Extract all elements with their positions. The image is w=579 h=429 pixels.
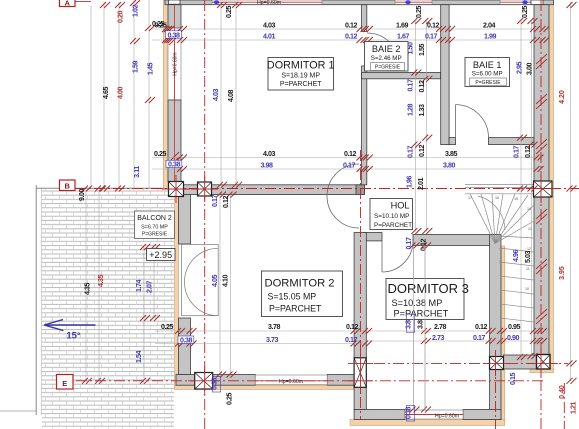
svg-text:16: 16 — [495, 196, 499, 200]
svg-text:E: E — [62, 379, 67, 388]
svg-text:4.10: 4.10 — [222, 274, 230, 287]
column B2 — [191, 176, 218, 202]
box around rotated 0.38 at D3 window — [406, 406, 414, 422]
D3 bottom row texts — [434, 323, 521, 331]
boxed 0.38 top — [166, 31, 182, 40]
svg-text:P=GRESIE: P=GRESIE — [142, 232, 168, 238]
svg-text:1.33: 1.33 — [418, 104, 426, 117]
stair tread numbers — [468, 196, 532, 291]
top wall window DORMITOR 1 — [212, 0, 322, 4]
svg-text:S=2.46 MP: S=2.46 MP — [371, 55, 402, 62]
red axis B horizontal — [75, 188, 579, 190]
svg-text:3.11: 3.11 — [133, 166, 141, 178]
column right wall bottom — [528, 348, 558, 378]
svg-text:P=GRESIE: P=GRESIE — [375, 65, 401, 71]
svg-text:0.38: 0.38 — [211, 377, 219, 390]
wall DORMITOR2 / DORMITOR3 — [354, 233, 366, 358]
BAIE2/HOL chains — [414, 21, 416, 232]
svg-text:1.54: 1.54 — [135, 350, 143, 363]
box around rotated 3.80 — [406, 314, 414, 332]
svg-text:3.98: 3.98 — [260, 162, 273, 170]
svg-text:3.78: 3.78 — [268, 323, 281, 331]
top dim rows — [152, 28, 545, 30]
mid row y151-165 texts — [154, 150, 458, 158]
svg-text:0.17: 0.17 — [345, 336, 358, 344]
red axis vertical x=360.5 — [360, 150, 362, 420]
svg-text:Hp=0.60m: Hp=0.60m — [435, 413, 459, 419]
svg-text:1.59: 1.59 — [132, 60, 140, 73]
svg-text:3.85: 3.85 — [445, 150, 458, 158]
svg-text:0.12: 0.12 — [344, 150, 357, 158]
door DORMITOR3 — [382, 241, 413, 272]
BAIE1 bottom wall right segment — [489, 138, 535, 145]
svg-text:4.35: 4.35 — [84, 282, 92, 295]
tan strip right wall — [549, 0, 554, 370]
svg-text:2.04: 2.04 — [483, 22, 496, 30]
DORMITOR3 top wall — [413, 235, 498, 246]
grid box A — [60, 0, 92, 7]
door D2/HOL half-swing arc — [327, 164, 359, 228]
room label DORMITOR 2 — [262, 271, 343, 317]
svg-text:12: 12 — [527, 247, 531, 251]
column D3 right — [483, 350, 510, 376]
svg-text:S=6.70 MP: S=6.70 MP — [141, 225, 168, 231]
svg-text:3.00: 3.00 — [526, 62, 534, 75]
DORMITOR2 bottom window — [255, 375, 327, 385]
svg-text:Hp=0.60m: Hp=0.60m — [257, 0, 281, 6]
D2 inner chains — [219, 195, 221, 375]
svg-text:5.03: 5.03 — [524, 250, 532, 263]
svg-text:0.12: 0.12 — [524, 145, 532, 158]
svg-text:0.38: 0.38 — [168, 161, 181, 169]
left vertical chains top — [90, 6, 92, 189]
svg-text:DORMITOR 3: DORMITOR 3 — [388, 281, 469, 296]
svg-text:4.96: 4.96 — [512, 249, 520, 262]
DORMITOR3 right wall — [490, 235, 501, 357]
top wall window BAIE 2 — [395, 0, 432, 4]
door BAIE2 — [367, 33, 400, 66]
BAIE2/HOL chain labels — [406, 42, 427, 190]
D2 bottom dim rows — [155, 330, 366, 332]
svg-text:0.40: 0.40 — [559, 385, 566, 399]
svg-text:2.01: 2.01 — [417, 177, 425, 190]
svg-text:0.38: 0.38 — [180, 336, 193, 344]
svg-text:2.95: 2.95 — [516, 61, 524, 74]
svg-text:0.17: 0.17 — [343, 162, 356, 170]
red insulation slashes on left wall — [169, 30, 179, 167]
top exterior wall — [165, 0, 554, 5]
svg-text:1.69: 1.69 — [396, 22, 409, 30]
tan strip D3 right wall — [501, 246, 505, 425]
grid box B — [60, 180, 76, 191]
svg-text:0.25: 0.25 — [154, 150, 167, 158]
svg-text:0.25: 0.25 — [152, 20, 165, 28]
svg-text:0.25: 0.25 — [225, 5, 233, 18]
window vent dot 1 — [214, 0, 220, 4]
svg-text:S=15.05 MP: S=15.05 MP — [268, 292, 317, 302]
svg-text:0.17: 0.17 — [211, 194, 219, 207]
door BAIE1 — [456, 105, 489, 138]
room label DORMITOR 1 — [267, 58, 335, 91]
svg-text:0.12: 0.12 — [420, 238, 428, 251]
tan strip D2 west wall — [175, 195, 179, 390]
svg-text:S=10.10 MP: S=10.10 MP — [374, 213, 409, 220]
svg-text:4.05: 4.05 — [211, 274, 219, 287]
tan strip below D2 bottom wall — [175, 385, 355, 389]
svg-text:BAIE 1: BAIE 1 — [473, 60, 502, 70]
svg-text:15°: 15° — [66, 331, 81, 342]
svg-text:17: 17 — [468, 196, 472, 200]
svg-text:9.00: 9.00 — [78, 188, 86, 201]
svg-text:3.73: 3.73 — [266, 336, 279, 344]
stairs — [465, 185, 538, 322]
left vertical chain labels — [78, 4, 155, 363]
svg-text:1.74: 1.74 — [135, 279, 143, 292]
svg-text:14: 14 — [527, 207, 531, 211]
svg-text:0.12: 0.12 — [418, 80, 426, 93]
red axis vertical x=541 — [540, 0, 542, 429]
svg-text:0.95: 0.95 — [508, 323, 521, 331]
svg-text:4.35: 4.35 — [97, 274, 105, 287]
svg-text:P=PARCHET: P=PARCHET — [394, 309, 449, 319]
svg-text:3.95: 3.95 — [559, 266, 566, 280]
wall below BAIE2 — [362, 73, 441, 79]
room label HOL — [370, 199, 413, 230]
red axis horizontal y=363.4 — [374, 362, 568, 364]
svg-text:S=6.00 MP: S=6.00 MP — [472, 71, 503, 78]
svg-text:HOL: HOL — [391, 201, 410, 211]
svg-text:0.38: 0.38 — [167, 31, 180, 39]
DORMITOR2 bottom wall — [176, 375, 255, 386]
svg-text:1.02: 1.02 — [132, 4, 140, 17]
svg-text:4.01: 4.01 — [263, 33, 276, 41]
svg-text:BALCON 2: BALCON 2 — [137, 215, 172, 222]
svg-text:11: 11 — [526, 267, 530, 271]
svg-text:2.73: 2.73 — [432, 334, 445, 342]
svg-text:DORMITOR 2: DORMITOR 2 — [265, 278, 335, 290]
svg-text:0.12: 0.12 — [418, 144, 426, 157]
svg-text:Hp=0.60m: Hp=0.60m — [279, 379, 303, 385]
svg-text:0.12: 0.12 — [346, 323, 359, 331]
svg-text:0.90: 0.90 — [507, 334, 520, 342]
wall segment between stair columns — [504, 355, 537, 369]
red axis vertical x=564.3 — [563, 383, 565, 429]
svg-text:1.28: 1.28 — [407, 103, 415, 116]
svg-text:2.07: 2.07 — [146, 280, 154, 293]
grid box E — [57, 375, 74, 390]
svg-text:1.45: 1.45 — [147, 62, 155, 75]
red axis vertical x=204.7 — [204, 0, 206, 429]
column B3 right wall — [527, 175, 558, 203]
top-left corner lintel — [169, 0, 181, 4]
svg-text:1.99: 1.99 — [484, 33, 497, 41]
level marker +2.95 — [147, 249, 176, 261]
red insulation slashes on right wall — [536, 54, 547, 324]
svg-text:4.00: 4.00 — [117, 86, 125, 99]
svg-text:1.21: 1.21 — [570, 401, 578, 414]
right exterior wall — [534, 5, 549, 357]
dimension texts: top blue row — [263, 33, 497, 41]
wall DORMITOR1 / BAIE2-HOL upper stub — [362, 5, 367, 32]
D3 inner chains — [413, 246, 415, 410]
window vent dot 3 — [522, 0, 528, 4]
DORMITOR3 bottom wall — [354, 410, 405, 420]
left wall thickness pairs — [152, 20, 165, 28]
chain lines over DORMITOR3 label — [413, 246, 415, 410]
dimension texts: top black row — [154, 22, 495, 30]
top wall window BAIE 1 — [500, 0, 531, 4]
svg-text:A: A — [64, 0, 70, 7]
DORMITOR3 top wall stub at D2 wall — [363, 233, 382, 241]
balcony tiled hatch area — [42, 189, 174, 429]
svg-text:0.38: 0.38 — [405, 406, 413, 419]
window vent dot 2 — [405, 0, 411, 4]
mid dim rows y155/165 — [152, 157, 538, 159]
tan strip below D3 bottom wall — [350, 420, 505, 426]
column B1 — [162, 175, 190, 203]
room label BALCON 2 — [135, 211, 175, 239]
top-right corner lintel — [531, 0, 543, 5]
wall on axis B (DORMITOR1/DORMITOR2) — [184, 185, 365, 195]
DORMITOR2 west wall lower segment — [179, 318, 191, 375]
D3 bottom dim rows — [366, 330, 541, 332]
svg-text:0.17: 0.17 — [425, 33, 438, 41]
svg-text:S=10.38 MP: S=10.38 MP — [392, 298, 443, 308]
svg-text:0.12: 0.12 — [345, 33, 358, 41]
svg-text:0.15: 0.15 — [509, 372, 517, 385]
svg-text:BAIE 2: BAIE 2 — [372, 44, 401, 54]
svg-text:S=18.19 MP: S=18.19 MP — [281, 73, 320, 80]
svg-text:0.12: 0.12 — [345, 22, 358, 30]
svg-text:P=PARCHET: P=PARCHET — [280, 81, 322, 88]
svg-text:P=PARCHET: P=PARCHET — [269, 304, 322, 314]
svg-text:3.80: 3.80 — [443, 162, 456, 170]
svg-text:10: 10 — [525, 287, 529, 291]
svg-text:P=PARCHET: P=PARCHET — [374, 222, 412, 229]
svg-text:+2.95: +2.95 — [149, 250, 172, 260]
door balcony french doors D2 — [182, 244, 219, 315]
BAIE1 chain labels — [512, 61, 534, 263]
room label DORMITOR 3 — [386, 279, 469, 320]
svg-text:0.17: 0.17 — [513, 145, 521, 158]
svg-text:4.65: 4.65 — [102, 86, 110, 99]
BAIE1/stair chains — [520, 21, 522, 363]
svg-text:4.03: 4.03 — [263, 150, 276, 158]
tan strip left wall — [163, 0, 168, 189]
svg-text:0.12: 0.12 — [475, 323, 488, 331]
svg-text:15: 15 — [514, 197, 518, 201]
left exterior wall lower segment — [168, 100, 181, 182]
red axis vertical x=495.5 — [495, 363, 497, 429]
svg-text:0.17: 0.17 — [407, 79, 415, 92]
svg-text:B: B — [64, 181, 70, 190]
left vertical chains bottom — [85, 189, 87, 381]
svg-text:4.03: 4.03 — [212, 88, 220, 101]
room label BAIE 2 — [365, 42, 409, 72]
column D2/D3 tall — [348, 351, 373, 394]
svg-text:1.67: 1.67 — [397, 33, 410, 41]
DORMITOR2 west wall upper segment — [179, 195, 191, 244]
left exterior wall upper segment — [168, 5, 181, 28]
D2 bottom row texts — [161, 323, 359, 331]
svg-text:0.12: 0.12 — [222, 195, 230, 208]
BAIE1 bottom wall left stub — [449, 138, 455, 145]
right outer chain — [570, 2, 572, 381]
DORMITOR3 bottom window — [405, 410, 463, 419]
svg-text:DORMITOR 1: DORMITOR 1 — [267, 60, 335, 72]
column E1 — [188, 366, 219, 395]
svg-text:0.25: 0.25 — [521, 5, 529, 18]
svg-text:0.12: 0.12 — [427, 22, 440, 30]
svg-text:P=GRESIE: P=GRESIE — [475, 80, 501, 86]
svg-text:1.96: 1.96 — [406, 175, 414, 188]
wall BAIE2 / BAIE1 — [441, 5, 449, 145]
D1 inner chains — [220, 5, 222, 185]
svg-text:1.55: 1.55 — [418, 43, 426, 56]
svg-text:4.20: 4.20 — [559, 90, 566, 104]
room label BAIE 1 — [465, 58, 510, 87]
svg-text:0.17: 0.17 — [407, 145, 415, 158]
balcony edge double line — [35, 185, 37, 415]
svg-text:4.03: 4.03 — [263, 22, 276, 30]
svg-text:0.25: 0.25 — [226, 392, 234, 405]
svg-text:0.25: 0.25 — [415, 5, 423, 18]
north/slope arrow blue — [44, 320, 96, 331]
wall DORMITOR1 / HOL — [362, 66, 367, 185]
left wall window — [168, 28, 181, 100]
svg-text:0.17: 0.17 — [405, 237, 413, 250]
svg-text:0.20: 0.20 — [117, 10, 125, 23]
box around rotated 0.38 at E wall — [212, 377, 220, 393]
svg-text:Hp=0.60m: Hp=0.60m — [173, 52, 179, 75]
svg-text:4.08: 4.08 — [227, 89, 235, 102]
svg-text:0.25: 0.25 — [161, 323, 174, 331]
red axis E horizontal — [57, 380, 545, 382]
svg-text:0.17: 0.17 — [473, 334, 486, 342]
svg-text:2.78: 2.78 — [434, 323, 447, 331]
